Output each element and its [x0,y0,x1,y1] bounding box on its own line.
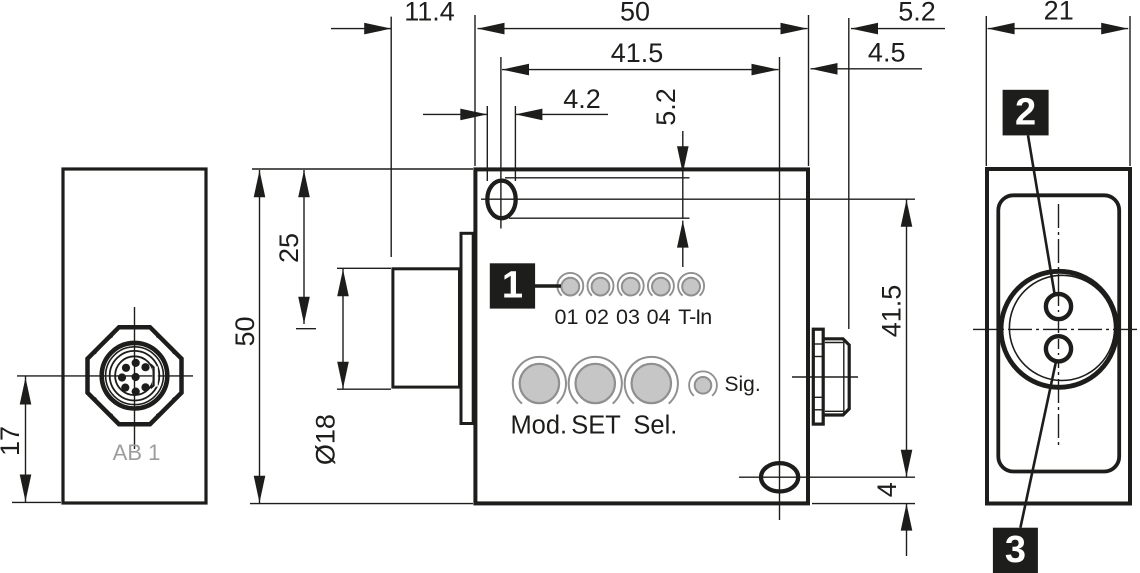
svg-text:50: 50 [620,0,650,27]
svg-text:Ø18: Ø18 [311,414,341,465]
svg-text:50: 50 [230,316,260,346]
svg-text:Sig.: Sig. [725,373,761,396]
svg-text:4.2: 4.2 [563,84,601,114]
svg-text:41.5: 41.5 [611,38,664,68]
svg-text:21: 21 [1044,0,1074,26]
svg-text:2: 2 [1015,91,1036,133]
svg-text:Sel.: Sel. [633,412,677,440]
svg-text:1: 1 [502,265,523,307]
svg-text:04: 04 [647,305,671,329]
svg-text:5.2: 5.2 [898,0,936,27]
svg-text:5.2: 5.2 [651,88,681,126]
svg-text:4: 4 [872,482,902,497]
svg-text:SET: SET [571,412,621,440]
svg-text:3: 3 [1005,529,1026,571]
svg-text:03: 03 [616,305,640,329]
svg-text:AB 1: AB 1 [113,440,161,465]
svg-text:4.5: 4.5 [868,38,906,68]
svg-text:02: 02 [585,305,609,329]
svg-text:17: 17 [0,426,25,456]
svg-text:T-In: T-In [678,305,711,329]
svg-text:01: 01 [555,305,579,329]
svg-text:41.5: 41.5 [877,285,907,338]
svg-text:25: 25 [274,233,304,263]
svg-text:Mod.: Mod. [510,412,567,440]
svg-text:11.4: 11.4 [404,0,455,27]
